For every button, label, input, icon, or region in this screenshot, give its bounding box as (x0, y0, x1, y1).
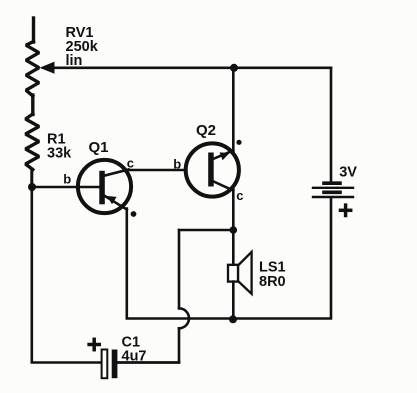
wire RV1 top terminal stub (32, 18, 35, 42)
svg-text:4u7: 4u7 (122, 349, 147, 365)
wire feedback vertical upper (down to hop) (178, 230, 181, 308)
node: R1 / Q1 base junction (28, 183, 36, 191)
capacitor C1 positive plate (outline) (102, 350, 108, 379)
svg-text:b: b (63, 171, 71, 186)
wire between RV1 and R1 (31, 95, 34, 115)
node: Q2 collector / feedback junction (230, 226, 238, 234)
svg-text:c: c (236, 188, 243, 203)
resistor R1 (zigzag body) (26, 114, 40, 170)
node: Q1 emitter dot (131, 211, 137, 217)
svg-text:8R0: 8R0 (259, 274, 286, 290)
battery B1: plate negative short thick (top) (324, 181, 340, 185)
C1 positive sign (89, 339, 99, 349)
battery B1: plate positive long thin (bottom) (313, 196, 353, 198)
svg-text:Q2: Q2 (196, 122, 216, 139)
svg-text:lin: lin (66, 53, 83, 69)
wire left rail (junction down to C1 corner) (32, 187, 102, 363)
wire R1 bottom to junction (30, 169, 33, 188)
svg-text:Q1: Q1 (89, 139, 109, 156)
capacitor C1 negative plate (solid) (112, 350, 118, 379)
loudspeaker LS1 cone (238, 252, 252, 294)
transistor Q1 (PNP) (78, 160, 131, 213)
RV1 wiper arrowhead (40, 62, 55, 74)
wire C1 right lead (117, 361, 179, 364)
svg-text:3V: 3V (339, 165, 357, 181)
battery positive sign (341, 205, 351, 215)
wire speaker bottom lead (232, 282, 235, 319)
wire Q2 emitter drop (232, 68, 235, 151)
loudspeaker LS1 driver body (228, 265, 238, 282)
transistor Q2 (NPN) (186, 143, 239, 196)
wire bottom-left rail (Q1 emitter to speaker junction) (127, 209, 233, 319)
battery B1: plate positive long thin (313, 187, 353, 189)
wire speaker top lead (232, 230, 235, 265)
wire Q1 base (32, 186, 100, 189)
wire feedback vertical lower + lead to C1 right plate (117, 328, 179, 362)
wire battery bottom lead (233, 198, 331, 319)
wire crossover hop (jumps bottom rail) (179, 308, 189, 328)
node: top rail / Q2 emitter junction (230, 64, 238, 72)
node: Q2 emitter dot (236, 140, 241, 145)
svg-text:b: b (173, 156, 181, 171)
wire top rail (wiper to battery +) (52, 67, 331, 70)
battery B1: plate negative short thick (lower cell) (324, 191, 340, 195)
wire feedback horizontal (junction to left) (179, 229, 233, 232)
wire Q1 collector to Q2 base (127, 169, 185, 172)
svg-text:33k: 33k (47, 146, 72, 162)
wire Q2 collector down (232, 190, 235, 231)
wire battery top lead (330, 68, 333, 183)
svg-text:c: c (127, 155, 134, 170)
potentiometer RV1 (zigzag body) (26, 42, 39, 97)
node: bottom rail / speaker junction (229, 315, 237, 323)
